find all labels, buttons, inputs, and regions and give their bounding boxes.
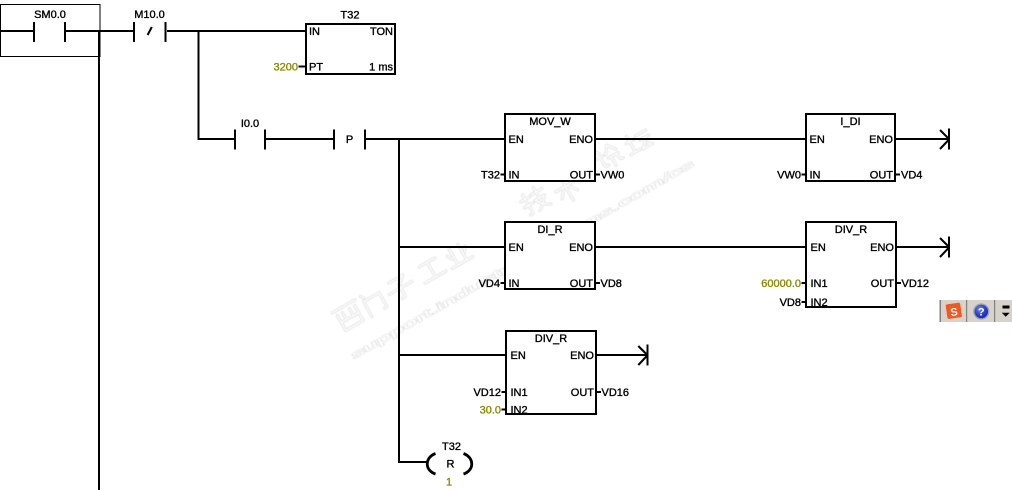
svg-text:VW0: VW0 (777, 170, 801, 182)
svg-text:1 ms: 1 ms (369, 62, 393, 74)
svg-text:SM0.0: SM0.0 (34, 9, 66, 21)
svg-text:IN1: IN1 (811, 278, 828, 290)
svg-text:OUT: OUT (871, 278, 895, 290)
svg-text:I0.0: I0.0 (241, 118, 259, 130)
svg-text:VD12: VD12 (473, 387, 501, 399)
svg-text:VD12: VD12 (902, 278, 930, 290)
svg-text:ENO: ENO (870, 242, 894, 254)
svg-text:VD4: VD4 (901, 170, 922, 182)
svg-text:OUT: OUT (570, 170, 594, 182)
svg-text:R: R (447, 459, 455, 471)
svg-text:EN: EN (810, 134, 825, 146)
svg-text:EN: EN (509, 134, 524, 146)
svg-text:?: ? (978, 307, 985, 319)
svg-text:IN: IN (509, 278, 520, 290)
svg-text:IN: IN (509, 170, 520, 182)
svg-text:IN2: IN2 (511, 405, 528, 417)
svg-text:IN: IN (309, 26, 320, 38)
svg-text:IN1: IN1 (511, 387, 528, 399)
svg-text:IN: IN (810, 170, 821, 182)
svg-text:1: 1 (446, 477, 452, 489)
svg-text:ENO: ENO (569, 242, 593, 254)
svg-text:DIV_R: DIV_R (535, 333, 567, 345)
svg-text:T32: T32 (481, 170, 500, 182)
svg-text:VD16: VD16 (602, 387, 630, 399)
svg-text:VD8: VD8 (780, 297, 801, 309)
svg-text:60000.0: 60000.0 (761, 278, 801, 290)
svg-text:ENO: ENO (869, 134, 893, 146)
svg-text:I_DI: I_DI (840, 116, 860, 128)
svg-text:OUT: OUT (571, 387, 595, 399)
svg-text:VD4: VD4 (479, 278, 500, 290)
svg-text:T32: T32 (341, 10, 360, 22)
svg-text:DI_R: DI_R (537, 224, 562, 236)
svg-text:ENO: ENO (570, 350, 594, 362)
svg-text:EN: EN (509, 242, 524, 254)
svg-text:MOV_W: MOV_W (529, 116, 571, 128)
svg-text:VD8: VD8 (601, 278, 622, 290)
svg-text:3200: 3200 (274, 62, 298, 74)
svg-text:VW0: VW0 (601, 170, 625, 182)
svg-text:ENO: ENO (569, 134, 593, 146)
svg-text:OUT: OUT (870, 170, 894, 182)
svg-text:P: P (346, 134, 353, 146)
svg-text:30.0: 30.0 (480, 405, 501, 417)
svg-text:OUT: OUT (570, 278, 594, 290)
svg-text:EN: EN (811, 242, 826, 254)
svg-text:PT: PT (309, 62, 323, 74)
svg-text:DIV_R: DIV_R (835, 224, 867, 236)
svg-text:TON: TON (370, 26, 393, 38)
svg-text:T32: T32 (442, 441, 461, 453)
svg-text:M10.0: M10.0 (134, 9, 165, 21)
svg-text:IN2: IN2 (811, 297, 828, 309)
svg-text:EN: EN (511, 350, 526, 362)
